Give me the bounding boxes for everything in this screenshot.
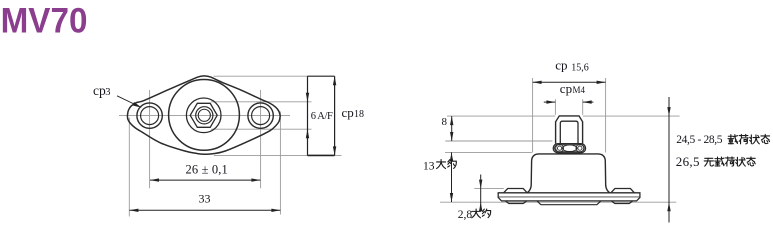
svg-text:cp: cp — [555, 57, 567, 72]
svg-text:3: 3 — [105, 87, 110, 98]
svg-text:15,6: 15,6 — [571, 62, 589, 73]
svg-text:cp: cp — [93, 83, 106, 98]
svg-text:M4: M4 — [573, 85, 586, 95]
svg-text:26 ± 0,1: 26 ± 0,1 — [186, 162, 228, 176]
svg-text:24,5 - 28,5: 24,5 - 28,5 — [676, 134, 723, 146]
svg-text:8: 8 — [442, 116, 448, 128]
svg-text:13: 13 — [423, 161, 435, 173]
svg-text:6 A/F: 6 A/F — [311, 111, 333, 122]
svg-text:18: 18 — [354, 109, 364, 120]
svg-text:33: 33 — [199, 191, 211, 205]
svg-text:cp: cp — [560, 81, 572, 96]
svg-text:26,5: 26,5 — [676, 154, 700, 169]
svg-text:cp: cp — [342, 105, 354, 120]
svg-text:2,8: 2,8 — [458, 209, 473, 221]
svg-text:MV70: MV70 — [1, 2, 88, 41]
